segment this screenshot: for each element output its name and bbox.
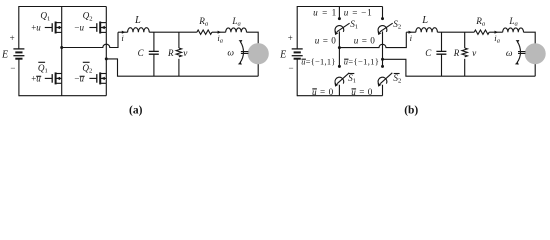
wire: stub S2 xyxy=(382,7,384,19)
wire: top feeder to L xyxy=(406,31,416,33)
svg-text:v: v xyxy=(472,49,477,59)
wire: La to motor, down through motor xyxy=(524,32,536,76)
svg-text:v: v xyxy=(183,49,188,59)
switch S1 xyxy=(335,23,350,35)
overline of S2bar xyxy=(394,73,400,75)
wire: bottom rail xyxy=(19,95,107,97)
wire: leg2 drain stub xyxy=(105,7,107,23)
motor M xyxy=(525,43,546,64)
capacitor C lead top xyxy=(441,32,443,51)
contact dot S2bar xyxy=(381,65,384,68)
contact dot S1bar xyxy=(338,65,341,68)
battery E xyxy=(13,49,24,59)
capacitor C plates xyxy=(149,51,159,54)
svg-text:+: + xyxy=(10,33,15,43)
wire: leg1 middle xyxy=(61,32,63,73)
svg-text:S1: S1 xyxy=(350,19,358,31)
svg-text:u = −1: u = −1 xyxy=(344,8,373,18)
svg-text:+u: +u xyxy=(31,23,41,33)
capacitor C lead bottom xyxy=(153,54,155,76)
svg-text:La: La xyxy=(508,16,518,28)
resistor Ra zigzag xyxy=(474,30,489,34)
svg-text:Ra: Ra xyxy=(475,16,486,28)
motor shaft xyxy=(518,52,525,54)
inductor La xyxy=(503,28,524,32)
svg-text:La: La xyxy=(231,16,241,28)
wire: leg2 middle xyxy=(382,31,384,66)
transistor Q1bar xyxy=(45,72,62,84)
transistor Q1 xyxy=(45,22,62,34)
svg-text:i: i xyxy=(121,33,124,43)
current arrow ia xyxy=(495,31,499,34)
svg-text:(b): (b) xyxy=(404,105,418,117)
wire: Ra to La xyxy=(212,31,226,33)
wire: L to Ra xyxy=(149,31,197,33)
svg-text:−: − xyxy=(10,63,15,73)
capacitor C lead bottom xyxy=(441,54,443,76)
resistor R lead top xyxy=(178,32,180,48)
svg-text:u = 0: u = 0 xyxy=(315,35,337,45)
overline of Q2bar xyxy=(83,61,90,63)
wire: bottom rail xyxy=(297,95,382,97)
switch S2 xyxy=(378,23,393,35)
svg-text:S2: S2 xyxy=(393,73,401,85)
svg-text:+u: +u xyxy=(31,74,41,84)
overline (ubar=0 left) xyxy=(312,88,317,90)
svg-text:Q1: Q1 xyxy=(40,11,50,23)
inductor La xyxy=(226,28,247,32)
wire: output A with hop over leg2 xyxy=(62,32,118,47)
svg-text:(a): (a) xyxy=(129,105,143,117)
overline (ubar left) xyxy=(302,58,306,60)
transistor Q2bar xyxy=(89,72,106,84)
wire: stub S1 xyxy=(338,7,340,19)
overline (ubar=0 right) xyxy=(352,88,357,90)
svg-text:u = 0: u = 0 xyxy=(354,35,376,45)
svg-text:E: E xyxy=(279,49,286,60)
current arrow ia xyxy=(218,31,222,34)
svg-text:R: R xyxy=(453,48,460,58)
contact dot S1 xyxy=(338,17,341,20)
resistor R lead top xyxy=(464,32,466,48)
wire: left rail lower xyxy=(296,59,298,96)
wire: top rail xyxy=(19,6,107,8)
wire: output A with hop over leg2 xyxy=(339,32,406,47)
motor M xyxy=(248,43,269,64)
switch S2bar xyxy=(378,73,393,87)
wire: left rail upper xyxy=(296,6,298,49)
capacitor C plates xyxy=(436,51,446,54)
node A dot (leg1 output) xyxy=(60,46,63,49)
overline (ubar right) xyxy=(344,58,348,60)
svg-text:R: R xyxy=(167,48,174,58)
wire: top rail xyxy=(297,6,382,8)
resistor Ra zigzag xyxy=(197,30,212,34)
current arrow i xyxy=(122,31,126,34)
overline of -ubar xyxy=(80,75,85,77)
resistor R zigzag xyxy=(462,48,467,57)
rotation arrow xyxy=(240,42,244,63)
battery E xyxy=(292,49,303,59)
svg-text:C: C xyxy=(425,48,432,58)
svg-text:S1: S1 xyxy=(348,73,356,85)
wire: output B to bottom filter rail xyxy=(383,59,536,76)
node B dot (leg2 output) xyxy=(105,57,108,60)
wire: leg1 middle xyxy=(338,31,340,66)
capacitor C lead top xyxy=(153,32,155,51)
wire: left rail upper xyxy=(18,6,20,49)
wire: L to Ra xyxy=(437,31,474,33)
node dot leg2 output xyxy=(381,58,384,61)
transistor Q2 xyxy=(89,22,106,34)
overline of S1bar xyxy=(348,73,354,75)
wire: Ra to La xyxy=(489,31,503,33)
wire: leg2 bottom xyxy=(105,83,107,95)
svg-text:Q2: Q2 xyxy=(83,11,93,23)
wire: La to motor, down through motor xyxy=(247,32,259,76)
svg-text:u={−1,1}: u={−1,1} xyxy=(301,58,336,67)
svg-text:E: E xyxy=(1,49,8,60)
svg-text:i: i xyxy=(410,33,413,43)
svg-text:−u: −u xyxy=(74,23,84,33)
svg-text:L: L xyxy=(421,15,428,26)
wire: top feeder to L xyxy=(118,31,128,33)
current arrow i xyxy=(409,31,413,34)
inductor L xyxy=(416,28,438,33)
svg-text:u={−1,1}: u={−1,1} xyxy=(344,58,380,67)
wire: leg1 bottom xyxy=(61,83,63,95)
svg-text:ω: ω xyxy=(227,49,234,59)
svg-text:ia: ia xyxy=(494,33,500,45)
switch S1bar xyxy=(335,73,350,87)
overline of Q1bar xyxy=(38,61,45,63)
rotation arrow xyxy=(517,42,521,63)
svg-text:ω: ω xyxy=(506,49,513,59)
svg-text:Ra: Ra xyxy=(198,16,209,28)
svg-text:u = 1: u = 1 xyxy=(313,8,337,18)
resistor R lead bottom xyxy=(464,59,466,76)
wire: leg2 bottom xyxy=(382,85,384,96)
svg-text:−u: −u xyxy=(74,74,84,84)
svg-text:ia: ia xyxy=(217,33,223,45)
wire: leg2 middle xyxy=(105,32,107,73)
wire: output B to bottom filter rail xyxy=(106,59,258,76)
motor shaft xyxy=(241,52,249,54)
svg-text:L: L xyxy=(134,15,141,26)
svg-text:−: − xyxy=(289,63,294,73)
node dot leg1 output xyxy=(338,46,341,49)
svg-text:+: + xyxy=(288,33,293,43)
contact dot S2 xyxy=(381,17,384,20)
wire: left rail lower xyxy=(18,59,20,96)
resistor R lead bottom xyxy=(178,59,180,76)
wire: leg1 bottom xyxy=(338,85,340,96)
wire: leg1 drain stub xyxy=(61,7,63,23)
inductor L xyxy=(128,28,150,33)
overline of +ubar xyxy=(36,75,41,77)
svg-text:S2: S2 xyxy=(393,19,401,31)
resistor R zigzag xyxy=(176,48,181,57)
svg-text:C: C xyxy=(138,48,145,58)
